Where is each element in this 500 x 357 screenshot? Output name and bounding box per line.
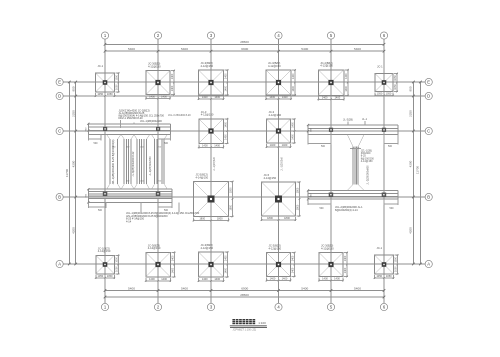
- svg-text:JL-2(2B)300x550: JL-2(2B)300x550: [149, 156, 152, 176]
- overhang dims (right structure): [307, 135, 309, 145]
- axis bubble D right: [425, 92, 432, 99]
- strip footing bottom flange (axes 1-2, row B): [88, 188, 172, 190]
- left overall dimension line: [68, 82, 70, 264]
- svg-text:1400: 1400: [171, 85, 174, 91]
- svg-text:1050: 1050: [386, 92, 392, 96]
- column mark at axis 6/C: [382, 128, 386, 132]
- svg-text:500: 500: [164, 142, 169, 145]
- svg-text:500: 500: [320, 207, 325, 210]
- svg-text:4-12@150: 4-12@150: [268, 64, 281, 68]
- svg-text:5400: 5400: [354, 47, 361, 51]
- title underline thin: [230, 326, 267, 328]
- svg-text:4-12@150: 4-12@150: [201, 64, 214, 68]
- svg-text:1050: 1050: [97, 92, 103, 96]
- svg-text:500: 500: [390, 207, 395, 210]
- axis bubble C left: [56, 127, 63, 134]
- footing JC-1 at axis 1/A: [96, 255, 115, 274]
- svg-text:1400: 1400: [214, 277, 220, 281]
- svg-text:A: A: [58, 261, 61, 266]
- footing JC-3 at axis 2/E: [146, 71, 170, 95]
- svg-text:1400: 1400: [292, 122, 295, 128]
- svg-text:1400: 1400: [345, 73, 348, 79]
- svg-text:1400: 1400: [292, 267, 295, 273]
- svg-text:1400: 1400: [292, 134, 295, 140]
- svg-text:1400: 1400: [202, 277, 208, 281]
- grid line 4 (vertical axis 4): [278, 39, 280, 303]
- svg-text:1400: 1400: [292, 85, 295, 91]
- svg-text:4200: 4200: [409, 227, 413, 234]
- column mark at axis 5/C: [329, 128, 333, 132]
- svg-text:1400: 1400: [322, 277, 328, 281]
- column mark at axis 1/B: [103, 192, 108, 197]
- bottom bay dimension line: [105, 290, 384, 292]
- svg-text:8@100/200(4) 4-14: 8@100/200(4) 4-14: [335, 208, 358, 212]
- grid line 2 (vertical axis 2): [157, 39, 159, 303]
- svg-text:E: E: [427, 79, 430, 84]
- axis bubble 1 bottom: [101, 303, 108, 310]
- svg-text:4-12@150: 4-12@150: [98, 249, 111, 253]
- svg-text:JL-1: JL-1: [362, 117, 368, 121]
- svg-text:1050: 1050: [107, 92, 113, 96]
- svg-text:D: D: [427, 93, 430, 98]
- svg-text:1400: 1400: [270, 143, 276, 147]
- svg-text:1400: 1400: [149, 277, 155, 281]
- footing JC-3 at axis 4/E: [266, 70, 291, 95]
- axis bubble 3 top: [207, 32, 214, 39]
- strip footing web 4 (with chamfers): [154, 139, 156, 184]
- svg-text:1400: 1400: [282, 277, 288, 281]
- footing JC-1 at axis 6/A: [375, 255, 394, 274]
- svg-text:4-14@150: 4-14@150: [196, 175, 209, 179]
- svg-text:5400: 5400: [181, 286, 188, 290]
- grid line 5 (vertical axis 5): [330, 39, 332, 303]
- svg-text:1800: 1800: [267, 216, 273, 220]
- svg-text:D: D: [58, 93, 61, 98]
- svg-text:4-14: 4-14: [126, 219, 132, 223]
- strip footing centre web (with chamfers): [352, 147, 354, 185]
- svg-text:JCPMBZT 1:100 (JZ): JCPMBZT 1:100 (JZ): [233, 328, 257, 331]
- svg-text:1400: 1400: [161, 95, 167, 99]
- grid line 1 (vertical axis 1): [104, 39, 106, 303]
- footing JC-1 at axis 6/E: [375, 74, 393, 92]
- svg-text:1400: 1400: [225, 73, 228, 79]
- svg-text:1400: 1400: [225, 267, 228, 273]
- svg-text:1400: 1400: [214, 95, 220, 99]
- column mark at axis 2/C: [156, 127, 160, 131]
- svg-text:1400: 1400: [171, 255, 174, 261]
- svg-text:1050: 1050: [394, 84, 397, 90]
- svg-text:1400: 1400: [161, 277, 167, 281]
- axis bubble A right: [425, 260, 432, 267]
- svg-text:1400: 1400: [270, 277, 276, 281]
- svg-text:1050: 1050: [386, 274, 392, 278]
- column mark at axis 5/B: [329, 193, 334, 198]
- axis bubble 2 top: [154, 32, 161, 39]
- svg-text:1050: 1050: [116, 74, 119, 80]
- svg-text:1400: 1400: [171, 73, 174, 79]
- svg-text:1800: 1800: [284, 216, 290, 220]
- grid line C (horizontal axis C): [63, 130, 425, 132]
- svg-text:28500: 28500: [240, 40, 249, 44]
- column mark at axis 2/B: [156, 192, 161, 197]
- svg-text:1400: 1400: [171, 267, 174, 273]
- strip footing top flange (axes 1-2, row C): [88, 123, 170, 125]
- axis bubble 2 bottom: [154, 303, 161, 310]
- svg-text:5400: 5400: [301, 286, 308, 290]
- svg-text:1400: 1400: [225, 85, 228, 91]
- axis bubble 5 bottom: [327, 303, 334, 310]
- svg-text:JC-1: JC-1: [377, 246, 383, 250]
- svg-text:4-14@150: 4-14@150: [264, 176, 277, 180]
- svg-text:1400: 1400: [224, 134, 227, 140]
- svg-text:1400: 1400: [344, 267, 347, 273]
- svg-text:5400: 5400: [128, 286, 135, 290]
- svg-text:1050: 1050: [115, 256, 118, 262]
- svg-text:500: 500: [321, 145, 326, 148]
- drawing title (CJK glyph blocks): [232, 319, 235, 324]
- grid line 3 (vertical axis 3): [210, 39, 212, 303]
- svg-text:JL-1(2B)3x6: JL-1(2B)3x6: [213, 157, 216, 171]
- grid line A (horizontal axis A): [63, 263, 425, 265]
- axis bubble 3 bottom: [207, 303, 214, 310]
- bottom overall dimension line: [105, 296, 384, 298]
- top bay dimension line: [105, 50, 384, 52]
- svg-text:11700: 11700: [65, 169, 69, 177]
- svg-text:1050: 1050: [115, 266, 118, 272]
- svg-text:JL-3(2B): JL-3(2B): [343, 118, 353, 122]
- leader lines from annotation block: [120, 120, 122, 128]
- svg-text:4-12@150: 4-12@150: [201, 246, 214, 250]
- column mark at axis 6/B: [382, 193, 387, 198]
- grid line E (horizontal axis E): [63, 81, 425, 83]
- svg-text:6900: 6900: [241, 286, 248, 290]
- strip footing web 3 dense wall lines (with chamfers): [136, 139, 138, 184]
- svg-text:A: A: [427, 261, 430, 266]
- svg-text:E: E: [58, 79, 61, 84]
- web width dim: [350, 147, 361, 149]
- grid line 6 (vertical axis 6): [383, 39, 385, 303]
- right overall dimension line: [419, 82, 421, 264]
- svg-text:JC-1: JC-1: [377, 65, 383, 69]
- svg-text:JC-1: JC-1: [98, 64, 104, 68]
- svg-text:1800: 1800: [297, 204, 300, 210]
- svg-text:JCL-3 250x600 8-20: JCL-3 250x600 8-20: [168, 114, 191, 117]
- svg-text:1050: 1050: [116, 84, 119, 90]
- footing JC-3 at axis 3/C: [199, 119, 224, 144]
- svg-text:11700: 11700: [415, 166, 419, 174]
- svg-text:1050: 1050: [394, 75, 397, 81]
- svg-text:1800: 1800: [199, 217, 205, 221]
- axis bubble C right: [425, 127, 432, 134]
- svg-text:5400: 5400: [128, 47, 135, 51]
- svg-text:4-12@150: 4-12@150: [269, 246, 282, 250]
- column mark at axis 1/C: [103, 127, 107, 131]
- svg-text:1:100: 1:100: [258, 321, 266, 325]
- svg-text:1400: 1400: [282, 95, 288, 99]
- top overall dimension line: [105, 43, 384, 45]
- svg-text:1400: 1400: [214, 143, 220, 147]
- svg-text:1400: 1400: [334, 277, 340, 281]
- title underline thick: [230, 324, 267, 327]
- footing JC-5 at axis 3/B: [194, 182, 229, 217]
- axis bubble 4 top: [275, 32, 282, 39]
- svg-text:1400: 1400: [224, 121, 227, 127]
- svg-text:JCL-1(2B)300x600: JCL-1(2B)300x600: [140, 119, 162, 123]
- svg-text:C: C: [58, 128, 61, 133]
- svg-text:28500: 28500: [240, 293, 249, 297]
- svg-text:4-14@150: 4-14@150: [361, 160, 373, 163]
- left bay dimension line: [75, 82, 77, 264]
- svg-text:4-12@150: 4-12@150: [269, 113, 282, 117]
- footing JC-3 at axis 4/C: [267, 119, 291, 143]
- svg-text:B: B: [427, 194, 430, 199]
- svg-text:1800: 1800: [217, 217, 223, 221]
- svg-text:1800: 1800: [230, 204, 233, 210]
- svg-text:1400: 1400: [202, 95, 208, 99]
- strip footing bottom flange (axes 5-6, row B): [308, 189, 398, 191]
- svg-text:1400: 1400: [292, 255, 295, 261]
- svg-text:1400: 1400: [344, 255, 347, 261]
- svg-text:1050: 1050: [395, 266, 398, 272]
- svg-text:2250: 2250: [409, 110, 413, 117]
- svg-text:1400: 1400: [269, 95, 275, 99]
- svg-text:C: C: [427, 128, 430, 133]
- svg-text:1400: 1400: [334, 95, 340, 99]
- svg-text:5400: 5400: [354, 286, 361, 290]
- footing JC-3 at axis 3/E: [199, 70, 224, 95]
- svg-text:JL-1(2B)3x6: JL-1(2B)3x6: [280, 157, 283, 171]
- footing JC-3 at axis 3/A: [199, 252, 224, 277]
- strip footing web 2 (with chamfers): [123, 139, 125, 184]
- axis bubble 1 top: [101, 32, 108, 39]
- svg-text:1400: 1400: [225, 255, 228, 261]
- axis bubble B right: [425, 193, 432, 200]
- svg-text:4-12@150: 4-12@150: [148, 64, 161, 68]
- svg-text:JZL-1(2B)300x600 8-25 8@100/20: JZL-1(2B)300x600 8-25 8@100/200(4): [111, 140, 115, 185]
- axis bubble 6 top: [380, 32, 387, 39]
- svg-text:1050: 1050: [107, 274, 113, 278]
- axis bubble E left: [56, 78, 63, 85]
- strip footing web 1 (with chamfers): [109, 139, 111, 184]
- svg-text:JL-3(2B)300x600 8-22: JL-3(2B)300x600 8-22: [132, 151, 135, 176]
- axis bubble B left: [56, 193, 63, 200]
- svg-text:JL-2(2B)300x600: JL-2(2B)300x600: [367, 165, 370, 185]
- axis bubble 4 bottom: [275, 303, 282, 310]
- svg-text:6900: 6900: [241, 47, 248, 51]
- svg-text:500: 500: [94, 142, 99, 145]
- svg-text:4-12@150: 4-12@150: [201, 113, 214, 117]
- svg-text:1400: 1400: [345, 85, 348, 91]
- svg-text:1050: 1050: [97, 274, 103, 278]
- grid line B (horizontal axis B): [63, 196, 425, 198]
- svg-text:1400: 1400: [202, 143, 208, 147]
- footing JC-5 at axis 4/B: [262, 182, 296, 216]
- svg-text:900: 900: [72, 86, 76, 91]
- svg-text:4-12@150: 4-12@150: [320, 64, 333, 68]
- footing JC-3 at axis 4/A: [267, 253, 291, 277]
- svg-text:1800: 1800: [230, 187, 233, 193]
- svg-text:B: B: [58, 194, 61, 199]
- svg-text:4-12@150: 4-12@150: [148, 246, 161, 250]
- hatched beam band in bottom flange: [88, 196, 172, 199]
- axis bubble 5 top: [327, 32, 334, 39]
- grid line D (horizontal axis D): [63, 95, 425, 97]
- overhang dims (left structure): [87, 135, 89, 141]
- svg-text:4-12@150: 4-12@150: [321, 246, 334, 250]
- svg-text:5400: 5400: [181, 47, 188, 51]
- svg-text:1050: 1050: [377, 92, 383, 96]
- svg-text:1050: 1050: [376, 274, 382, 278]
- strip footing top flange (axes 5-6, row C): [308, 124, 398, 126]
- svg-text:4200: 4200: [72, 160, 76, 167]
- svg-text:500: 500: [388, 145, 393, 148]
- svg-text:1400: 1400: [292, 73, 295, 79]
- svg-text:900: 900: [409, 86, 413, 91]
- axis bubble D left: [56, 92, 63, 99]
- axis bubble 6 bottom: [380, 303, 387, 310]
- footing JC-4 at axis 5/E: [318, 70, 344, 96]
- svg-text:1050: 1050: [395, 256, 398, 262]
- svg-text:4200: 4200: [409, 160, 413, 167]
- footing JC-3 at axis 2/A: [146, 252, 171, 277]
- footing JC-3 at axis 5/A: [319, 253, 343, 277]
- svg-text:1800: 1800: [297, 187, 300, 193]
- svg-text:4200: 4200: [72, 227, 76, 234]
- axis bubble A left: [56, 260, 63, 267]
- svg-text:5400: 5400: [301, 47, 308, 51]
- right bay dimension line: [412, 82, 414, 264]
- svg-text:1400: 1400: [282, 143, 288, 147]
- svg-text:2250: 2250: [72, 110, 76, 117]
- svg-text:1400: 1400: [322, 95, 328, 99]
- svg-text:500: 500: [98, 209, 103, 212]
- axis bubble E right: [425, 78, 432, 85]
- svg-text:1400: 1400: [149, 95, 155, 99]
- footing JC-1 at axis 1/E: [96, 73, 115, 92]
